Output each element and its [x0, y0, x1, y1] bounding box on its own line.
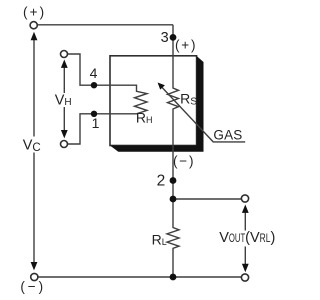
svg-text:(+): (+)	[23, 4, 46, 19]
svg-text:2: 2	[157, 173, 166, 190]
svg-text:(+): (+)	[175, 38, 197, 53]
svg-text:(−): (−)	[20, 279, 46, 294]
svg-text:4: 4	[90, 65, 98, 81]
svg-text:VOUT(VRL): VOUT(VRL)	[219, 230, 275, 246]
svg-text:1: 1	[92, 115, 100, 131]
svg-text:(−): (−)	[173, 153, 195, 168]
svg-text:GAS: GAS	[213, 127, 242, 142]
svg-text:3: 3	[161, 30, 169, 46]
